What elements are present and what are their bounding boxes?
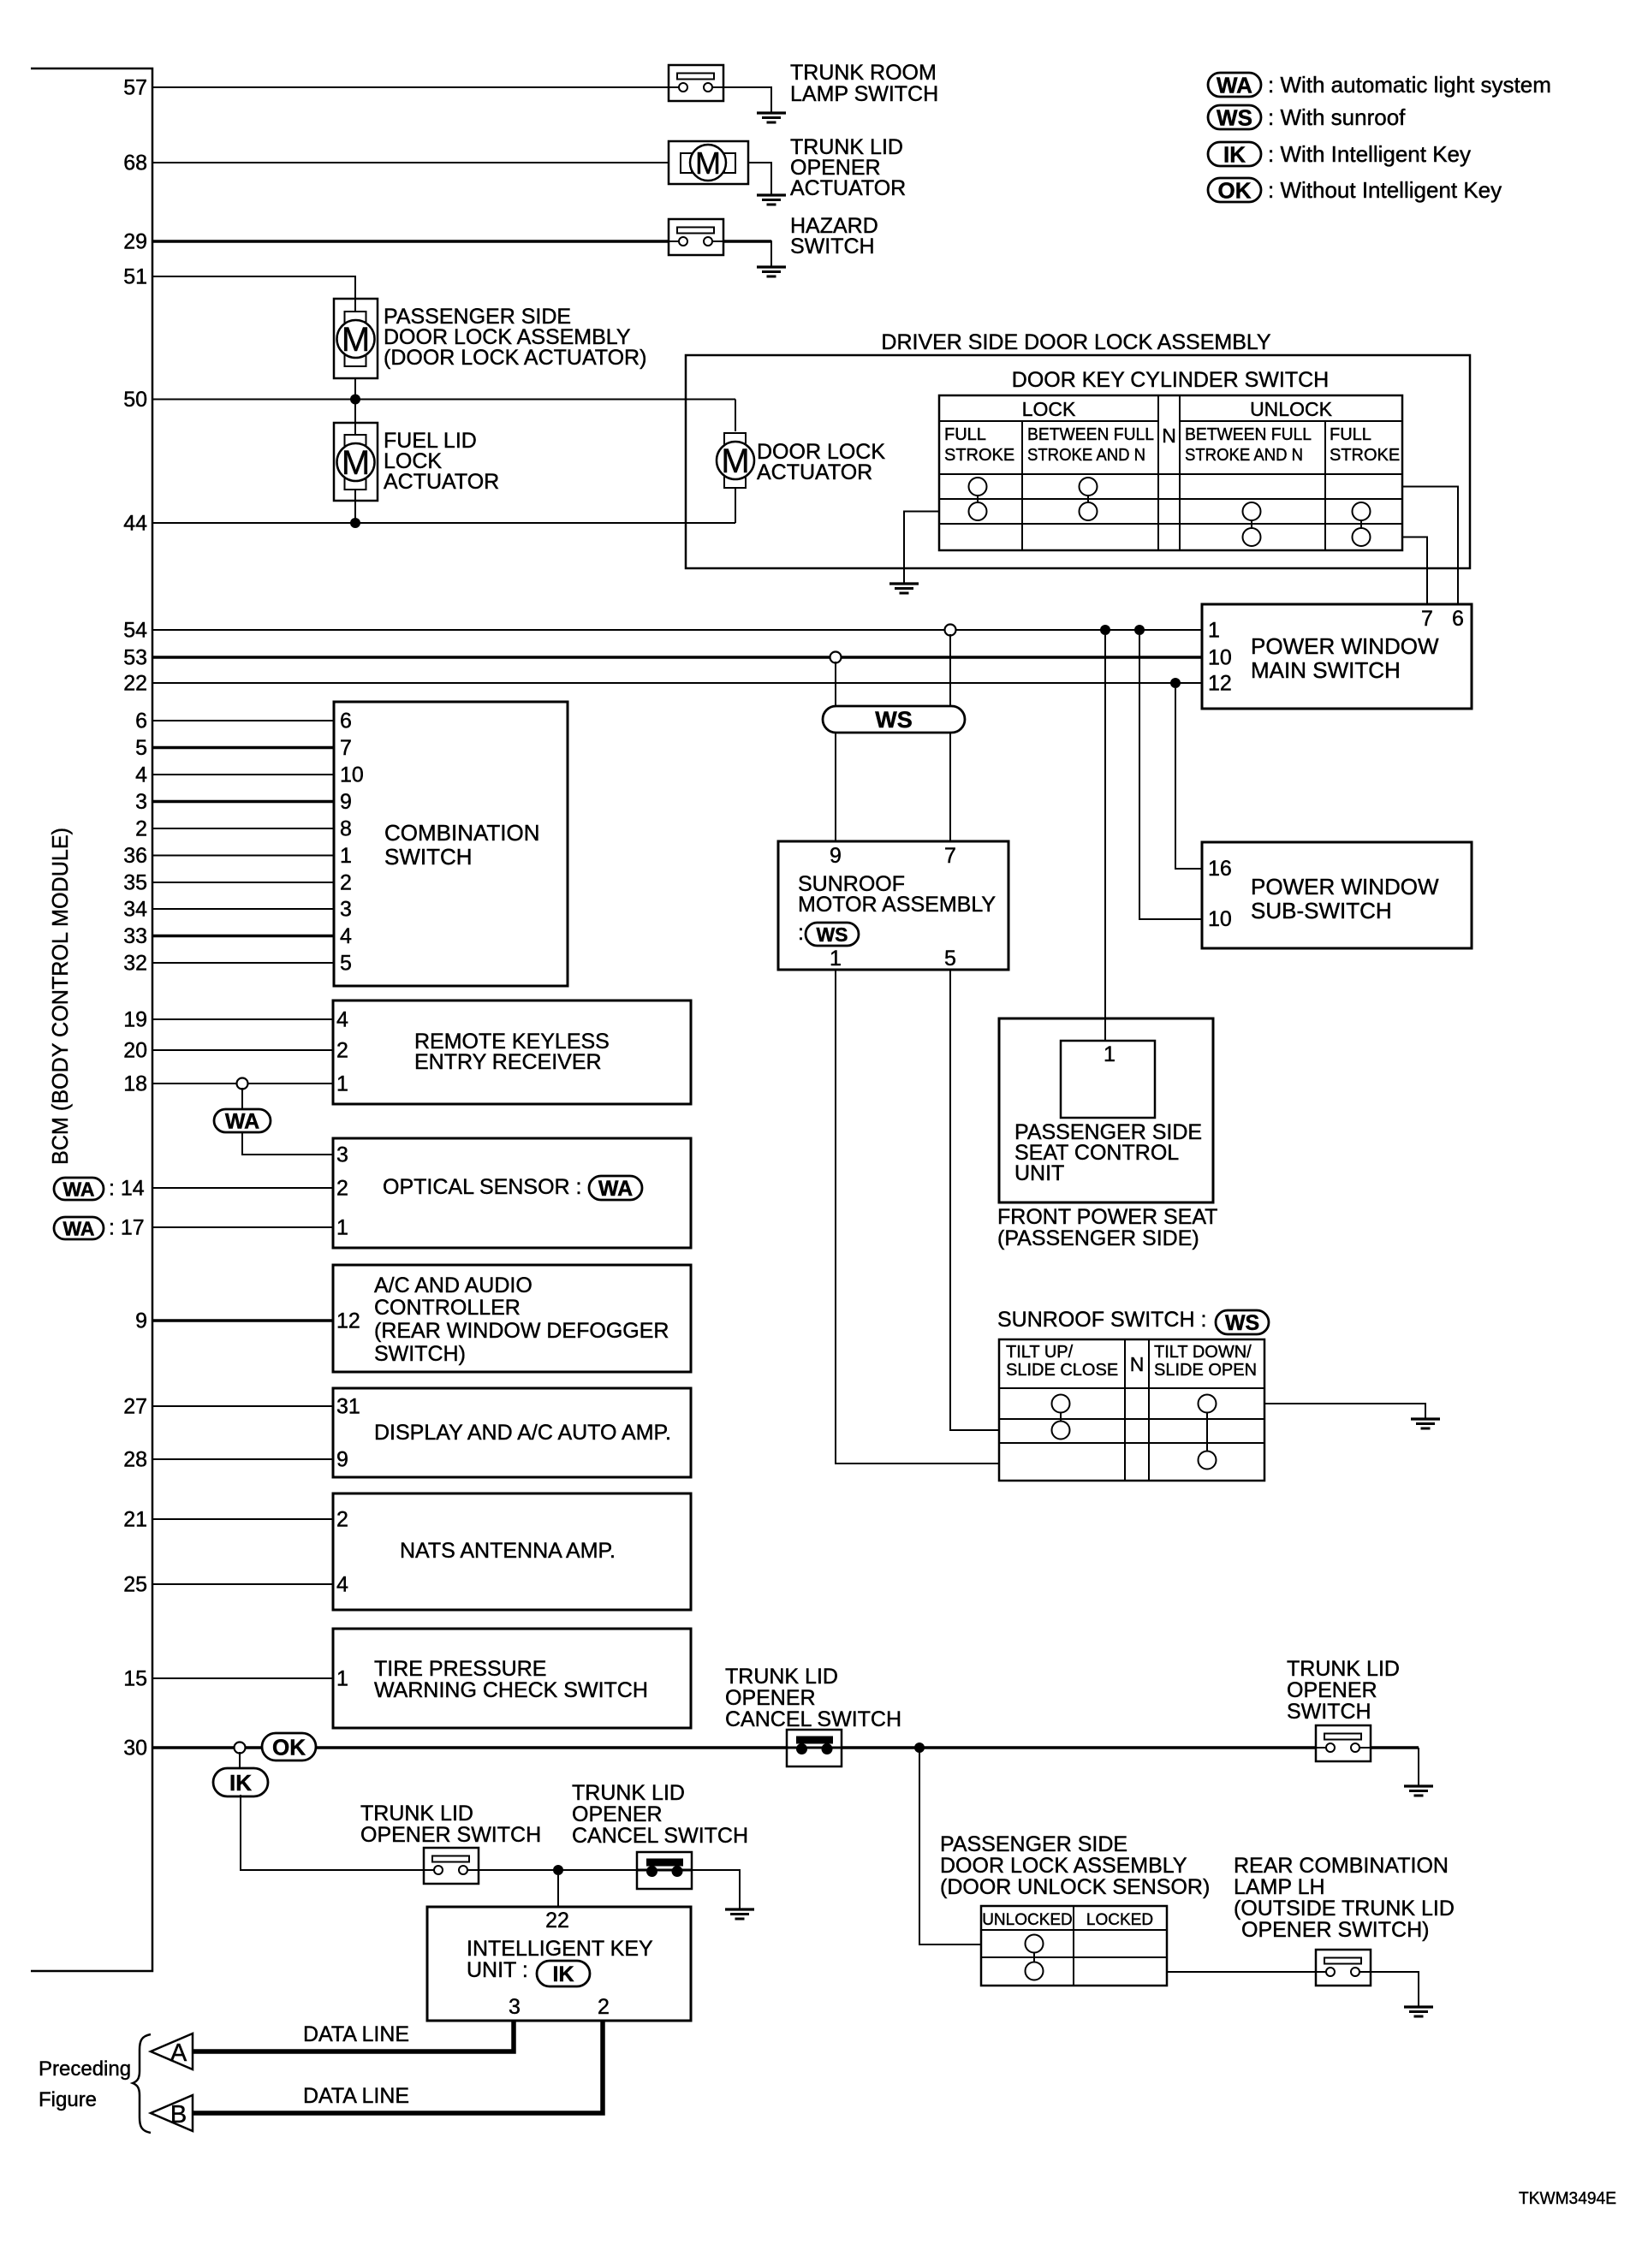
trunk lid opener actuator M1 xyxy=(669,141,748,184)
wire motor M2 to node on pin 50 wire xyxy=(354,378,356,399)
trunk lid opener switch (IK branch) xyxy=(424,1848,479,1884)
wire pin 30 (thick) xyxy=(152,1746,787,1749)
legend OK oval xyxy=(1208,178,1261,202)
svg-text:A/C AND AUDIO: A/C AND AUDIO xyxy=(374,1274,532,1297)
svg-text:STROKE AND N: STROKE AND N xyxy=(1027,446,1145,465)
svg-text:57: 57 xyxy=(123,76,147,100)
svg-text:OK: OK xyxy=(1218,177,1252,203)
wire WA oval to optical sensor pin 3 xyxy=(242,1132,333,1155)
door unlock sensor table xyxy=(981,1906,1167,1986)
svg-text:CONTROLLER: CONTROLLER xyxy=(374,1296,521,1320)
svg-text:SUNROOF SWITCH :: SUNROOF SWITCH : xyxy=(997,1308,1206,1332)
svg-text:MAIN SWITCH: MAIN SWITCH xyxy=(1251,657,1401,683)
wire pin 20 to remote keyless entry receiver pin 2 xyxy=(152,1049,333,1051)
svg-text:CANCEL SWITCH: CANCEL SWITCH xyxy=(572,1824,748,1848)
svg-text:POWER WINDOW: POWER WINDOW xyxy=(1251,633,1439,659)
optical sensor box xyxy=(333,1138,691,1248)
ground for sunroof switch xyxy=(1411,1417,1440,1420)
wire pin 68 to trunk lid opener actuator xyxy=(152,162,669,163)
wire node to power window sub-switch pin 16 xyxy=(1175,688,1202,869)
svg-text:2: 2 xyxy=(336,1508,348,1532)
intelligent key unit box xyxy=(427,1907,691,2021)
option connector on wire 53 xyxy=(830,652,842,663)
wire pin 21 to NATS antenna amp pin 2 xyxy=(152,1518,333,1520)
svg-text:COMBINATION: COMBINATION xyxy=(384,820,540,846)
node junction on wire 30 xyxy=(914,1743,925,1753)
wire pin 5 to combination switch pin 7 (thick) xyxy=(152,746,334,750)
WS option oval on sunroof wires xyxy=(823,706,965,733)
svg-text:ACTUATOR: ACTUATOR xyxy=(757,460,872,484)
cylinder switch contacts unlock between xyxy=(1251,512,1252,537)
svg-text:7: 7 xyxy=(340,736,352,760)
svg-text:M: M xyxy=(342,444,370,482)
trunk lid opener switch (wire 30) xyxy=(1316,1725,1371,1761)
svg-text:6: 6 xyxy=(340,709,352,733)
svg-text:(REAR WINDOW DEFOGGER: (REAR WINDOW DEFOGGER xyxy=(374,1319,669,1343)
svg-text:1: 1 xyxy=(1104,1042,1116,1066)
svg-text:3: 3 xyxy=(340,898,352,922)
display and A/C auto amp box xyxy=(333,1388,691,1477)
svg-text:50: 50 xyxy=(123,388,147,412)
svg-text:OPENER: OPENER xyxy=(725,1686,816,1710)
svg-text:3: 3 xyxy=(135,790,147,814)
svg-text:DRIVER SIDE DOOR LOCK ASSEMBLY: DRIVER SIDE DOOR LOCK ASSEMBLY xyxy=(881,330,1271,354)
wire pin 33 to combination switch pin 4 (thick) xyxy=(152,935,334,938)
svg-text:2: 2 xyxy=(336,1177,348,1201)
svg-text:WA: WA xyxy=(598,1177,633,1201)
wire pin 9 to A/C and audio controller pin 12 (thick) xyxy=(152,1319,333,1322)
svg-text:19: 19 xyxy=(123,1008,147,1032)
svg-text:1: 1 xyxy=(830,947,842,971)
wire pin 27 to display amp pin 31 xyxy=(152,1405,333,1407)
svg-text:22: 22 xyxy=(545,1909,569,1933)
svg-text:18: 18 xyxy=(123,1072,147,1096)
wire pin 4 to combination switch pin 10 xyxy=(152,774,334,775)
wire pin 32 to combination switch pin 5 xyxy=(152,962,334,964)
node junction on wire 50 xyxy=(350,395,360,405)
svg-text:N: N xyxy=(1130,1353,1145,1375)
svg-text:34: 34 xyxy=(123,898,147,922)
svg-text:FULL: FULL xyxy=(1330,425,1371,444)
ground for rear combination lamp xyxy=(1404,2005,1433,2008)
power window sub-switch box xyxy=(1202,842,1472,948)
node on wire 22 to power window sub-switch xyxy=(1170,678,1181,688)
svg-text:5: 5 xyxy=(340,952,352,976)
svg-text:TRUNK LID: TRUNK LID xyxy=(360,1802,473,1826)
svg-text:FRONT POWER SEAT: FRONT POWER SEAT xyxy=(997,1205,1217,1229)
svg-text:PASSENGER SIDE: PASSENGER SIDE xyxy=(940,1832,1127,1856)
svg-text:12: 12 xyxy=(336,1309,360,1333)
svg-text:M: M xyxy=(342,321,370,359)
svg-text:ACTUATOR: ACTUATOR xyxy=(790,176,906,200)
BCM boundary (partial box left) xyxy=(31,68,152,1971)
svg-text:2: 2 xyxy=(336,1039,348,1063)
wire cylinder switch row to ground xyxy=(904,512,939,585)
door lock actuator M4 xyxy=(724,433,746,444)
svg-text:31: 31 xyxy=(336,1395,360,1419)
svg-text:32: 32 xyxy=(123,952,147,976)
svg-text:36: 36 xyxy=(123,844,147,868)
svg-text:(PASSENGER SIDE): (PASSENGER SIDE) xyxy=(997,1226,1199,1250)
sunroof motor WS oval xyxy=(806,923,859,946)
svg-text:6: 6 xyxy=(1452,607,1464,631)
legend WS oval xyxy=(1208,105,1261,129)
cylinder switch contacts lock between xyxy=(1087,487,1089,512)
passenger side seat control unit box xyxy=(999,1018,1213,1202)
svg-text:33: 33 xyxy=(123,924,147,948)
node junction to intelligent key unit xyxy=(553,1865,563,1875)
wire pin 19 to remote keyless entry receiver pin 4 xyxy=(152,1018,333,1020)
svg-text:15: 15 xyxy=(123,1667,147,1691)
data line wire A (thick) xyxy=(192,2021,514,2051)
door key cylinder switch table xyxy=(939,395,1402,550)
wire pin 14 to optical sensor pin 2 xyxy=(152,1187,333,1189)
wire node to sunroof motor pin 9 xyxy=(835,662,836,841)
wire sunroof motor pin 5 to sunroof switch xyxy=(950,970,999,1430)
svg-text:16: 16 xyxy=(1208,857,1232,881)
svg-text:WA: WA xyxy=(62,1217,94,1239)
svg-text:9: 9 xyxy=(135,1309,147,1333)
IK option oval on branch xyxy=(213,1768,268,1796)
svg-text:4: 4 xyxy=(336,1008,348,1032)
wire option connector to IK oval xyxy=(239,1752,241,1769)
sunroof switch contacts tilt down xyxy=(1206,1404,1208,1460)
svg-text:BCM (BODY CONTROL MODULE): BCM (BODY CONTROL MODULE) xyxy=(47,828,73,1165)
sunroof switch table xyxy=(999,1339,1264,1481)
wire pin 3 to combination switch pin 9 (thick) xyxy=(152,800,334,804)
svg-text:: With automatic light system: : With automatic light system xyxy=(1268,72,1551,98)
wire pin 34 to combination switch pin 3 xyxy=(152,908,334,910)
wire pin 57 to trunk room lamp switch xyxy=(152,86,669,88)
svg-text:2: 2 xyxy=(598,1995,610,2019)
svg-text:2: 2 xyxy=(340,871,352,895)
svg-text:IK: IK xyxy=(229,1770,252,1796)
svg-text::: : xyxy=(798,921,804,945)
wire door unlock sensor to rear combination lamp xyxy=(1167,1971,1316,1973)
terminal 17 with WA option xyxy=(54,1217,104,1239)
svg-text:: With Intelligent Key: : With Intelligent Key xyxy=(1268,141,1471,167)
svg-text:TIRE PRESSURE: TIRE PRESSURE xyxy=(374,1657,546,1681)
svg-text:1: 1 xyxy=(336,1072,348,1096)
svg-text:CANCEL SWITCH: CANCEL SWITCH xyxy=(725,1707,901,1731)
svg-text:Preceding: Preceding xyxy=(39,2057,131,2081)
ground for trunk room lamp switch xyxy=(757,111,786,114)
connector arrow B xyxy=(151,2095,193,2131)
tire pressure warning check switch box xyxy=(333,1629,691,1728)
svg-text:(DOOR UNLOCK SENSOR): (DOOR UNLOCK SENSOR) xyxy=(940,1875,1210,1899)
wire pin 53 to power window main switch pin 10 (thick) xyxy=(152,656,1202,659)
svg-text:IK: IK xyxy=(553,1962,574,1986)
svg-text:TILT UP/: TILT UP/ xyxy=(1006,1343,1074,1362)
OK option oval on wire 30 xyxy=(262,1733,316,1760)
svg-text:27: 27 xyxy=(123,1395,147,1419)
svg-text:TRUNK ROOM: TRUNK ROOM xyxy=(790,61,937,85)
svg-text:5: 5 xyxy=(944,947,956,971)
driver side door lock assembly box xyxy=(686,355,1470,568)
svg-text:BETWEEN FULL: BETWEEN FULL xyxy=(1027,425,1154,444)
svg-text:OK: OK xyxy=(272,1734,306,1760)
svg-text:TRUNK LID: TRUNK LID xyxy=(1287,1657,1400,1681)
legend WA oval xyxy=(1208,73,1261,97)
svg-text:IK: IK xyxy=(1223,141,1246,167)
svg-text:WS: WS xyxy=(816,923,848,946)
svg-text:WA: WA xyxy=(62,1178,94,1200)
node on wire 54 to power window sub-switch xyxy=(1134,625,1145,635)
svg-text:SWITCH: SWITCH xyxy=(1287,1700,1371,1724)
wire pin 51 to passenger side door lock actuator xyxy=(152,276,355,299)
trunk lid opener cancel switch (wire 30) xyxy=(787,1730,842,1766)
wire cylinder switch to power window main switch pin 7 xyxy=(1402,537,1427,605)
wire pin 22 to power window main switch pin 12 xyxy=(152,682,1202,684)
terminal 14 with WA option xyxy=(54,1178,104,1200)
door unlock sensor contacts xyxy=(1033,1944,1035,1971)
WA option oval on wire 18 branch xyxy=(214,1109,271,1132)
wire node to power window sub-switch pin 10 xyxy=(1139,635,1202,919)
svg-text:N: N xyxy=(1162,425,1176,447)
wire motor M3 to node on pin 44 wire xyxy=(354,490,356,523)
ground for cancel switch (IK branch) xyxy=(725,1908,754,1910)
svg-text:5: 5 xyxy=(135,736,147,760)
svg-text:12: 12 xyxy=(1208,672,1232,696)
trunk room lamp switch xyxy=(669,65,723,101)
seat control unit inner connector box xyxy=(1061,1041,1155,1118)
svg-text:9: 9 xyxy=(830,844,842,868)
svg-text:LAMP LH: LAMP LH xyxy=(1234,1875,1325,1899)
svg-text:20: 20 xyxy=(123,1039,147,1063)
svg-text:POWER WINDOW: POWER WINDOW xyxy=(1251,874,1439,899)
svg-text:7: 7 xyxy=(1421,607,1433,631)
svg-text:DOOR KEY CYLINDER SWITCH: DOOR KEY CYLINDER SWITCH xyxy=(1012,368,1329,392)
preceding figure brace xyxy=(133,2034,151,2133)
svg-text:UNLOCKED: UNLOCKED xyxy=(982,1911,1073,1929)
svg-text:MOTOR ASSEMBLY: MOTOR ASSEMBLY xyxy=(798,893,996,917)
svg-text:TRUNK LID: TRUNK LID xyxy=(725,1665,838,1689)
cylinder switch contacts unlock full stroke xyxy=(1360,512,1362,537)
wire IK branch to trunk lid opener switch xyxy=(241,1795,424,1870)
ground for trunk lid opener switch xyxy=(1404,1784,1433,1787)
svg-text:WS: WS xyxy=(875,707,913,733)
wire node to sunroof motor pin 7 xyxy=(949,634,951,841)
svg-text:STROKE: STROKE xyxy=(1330,446,1400,465)
svg-text:M: M xyxy=(721,442,749,480)
wire pin 50 to driver side door lock actuator xyxy=(152,399,735,401)
wire rear combination lamp to ground xyxy=(1371,1972,1419,2007)
wire pin 15 to tire pressure warning check switch pin 1 xyxy=(152,1677,333,1679)
svg-text:6: 6 xyxy=(135,709,147,733)
svg-text:OPTICAL SENSOR :: OPTICAL SENSOR : xyxy=(383,1175,581,1199)
wire sunroof switch to ground xyxy=(1264,1404,1425,1419)
ground for trunk lid opener actuator xyxy=(757,193,786,196)
svg-text:22: 22 xyxy=(123,672,147,696)
svg-text:3: 3 xyxy=(336,1143,348,1167)
option connector on wire 18 xyxy=(237,1078,248,1089)
wire pin 36 to combination switch pin 1 xyxy=(152,855,334,857)
wire option connector to WA oval xyxy=(241,1088,243,1109)
wire node to intelligent key unit pin 22 xyxy=(557,1875,559,1907)
svg-text:: 17: : 17 xyxy=(109,1216,145,1240)
svg-text:FULL: FULL xyxy=(944,425,986,444)
wire opener switch to cancel switch (IK branch) xyxy=(479,1869,637,1871)
ground for hazard switch xyxy=(757,265,786,268)
trunk lid opener cancel switch (IK branch) xyxy=(637,1852,692,1889)
A/C and audio controller box xyxy=(333,1265,691,1372)
svg-text:INTELLIGENT KEY: INTELLIGENT KEY xyxy=(467,1937,653,1961)
passenger side door lock assembly M2 xyxy=(334,299,378,378)
wire pin 54 to power window main switch pin 1 xyxy=(152,629,1202,631)
wire pin 29 to hazard switch (thick) xyxy=(152,240,669,243)
svg-text:4: 4 xyxy=(336,1573,348,1597)
svg-text:SUB-SWITCH: SUB-SWITCH xyxy=(1251,898,1392,923)
svg-text:4: 4 xyxy=(340,924,352,948)
svg-text:53: 53 xyxy=(123,646,147,670)
wire node to passenger seat control unit xyxy=(1104,635,1106,1041)
svg-text:SLIDE CLOSE: SLIDE CLOSE xyxy=(1006,1361,1118,1380)
svg-text:LOCK: LOCK xyxy=(1022,398,1076,420)
rear combination lamp outside trunk lid opener switch xyxy=(1316,1950,1371,1986)
svg-text:WS: WS xyxy=(1217,104,1252,130)
svg-text:: 14: : 14 xyxy=(109,1177,145,1201)
svg-text:51: 51 xyxy=(123,265,147,289)
svg-text:ENTRY RECEIVER: ENTRY RECEIVER xyxy=(414,1050,602,1074)
svg-text:WARNING CHECK SWITCH: WARNING CHECK SWITCH xyxy=(374,1678,648,1702)
svg-text:(DOOR LOCK ACTUATOR): (DOOR LOCK ACTUATOR) xyxy=(384,346,646,370)
hazard switch xyxy=(669,219,723,255)
optical sensor WA oval xyxy=(589,1176,642,1200)
svg-text:28: 28 xyxy=(123,1448,147,1472)
sunroof switch WS oval xyxy=(1216,1310,1269,1334)
sunroof switch contacts tilt up xyxy=(1060,1404,1062,1430)
ground for door key cylinder switch xyxy=(889,582,919,585)
svg-text:WA: WA xyxy=(225,1110,259,1134)
wire pin 28 to display amp pin 9 xyxy=(152,1458,333,1460)
wire pin 25 to NATS antenna amp pin 4 xyxy=(152,1583,333,1585)
svg-text:UNIT: UNIT xyxy=(1014,1161,1064,1185)
sunroof motor assembly box xyxy=(778,841,1008,970)
legend IK oval xyxy=(1208,142,1261,166)
wire cylinder switch to power window main switch pin 6 xyxy=(1402,487,1458,605)
svg-text:21: 21 xyxy=(123,1508,147,1532)
svg-text:SWITCH): SWITCH) xyxy=(374,1342,466,1366)
svg-text:DATA LINE: DATA LINE xyxy=(303,2084,409,2108)
intelligent key unit IK oval xyxy=(537,1961,590,1986)
svg-text:DISPLAY AND A/C AUTO AMP.: DISPLAY AND A/C AUTO AMP. xyxy=(374,1421,671,1445)
svg-text:7: 7 xyxy=(944,844,956,868)
wire 50 into door lock actuator M4 xyxy=(735,400,736,432)
svg-text:10: 10 xyxy=(1208,907,1232,931)
wire pin 44 to driver side door lock actuator xyxy=(152,522,735,524)
svg-text:DOOR LOCK ASSEMBLY: DOOR LOCK ASSEMBLY xyxy=(940,1854,1187,1878)
svg-text:(OUTSIDE TRUNK LID: (OUTSIDE TRUNK LID xyxy=(1234,1897,1455,1921)
svg-text:UNLOCK: UNLOCK xyxy=(1250,398,1333,420)
svg-text:9: 9 xyxy=(336,1448,348,1472)
svg-text:ACTUATOR: ACTUATOR xyxy=(384,470,499,494)
svg-text:SLIDE OPEN: SLIDE OPEN xyxy=(1154,1361,1257,1380)
svg-text:TILT DOWN/: TILT DOWN/ xyxy=(1154,1343,1252,1362)
svg-text:LOCKED: LOCKED xyxy=(1086,1911,1153,1929)
node on wire 54 to seat control unit xyxy=(1100,625,1110,635)
wire pin 35 to combination switch pin 2 xyxy=(152,882,334,883)
svg-text:DATA LINE: DATA LINE xyxy=(303,2022,409,2046)
svg-text:TKWM3494E: TKWM3494E xyxy=(1519,2189,1616,2208)
svg-text:25: 25 xyxy=(123,1573,147,1597)
wire sunroof motor pin 1 to sunroof switch xyxy=(836,970,999,1464)
wire pin 18 to remote keyless entry receiver pin 1 xyxy=(152,1083,333,1084)
svg-text:54: 54 xyxy=(123,619,147,643)
svg-text:OPENER SWITCH): OPENER SWITCH) xyxy=(1241,1918,1429,1942)
svg-text:OPENER: OPENER xyxy=(1287,1678,1377,1702)
svg-text:TRUNK LID: TRUNK LID xyxy=(572,1781,685,1805)
wire cancel switch to ground (IK branch) xyxy=(691,1870,740,1909)
wire pin 6 to combination switch pin 6 xyxy=(152,720,334,721)
svg-text:3: 3 xyxy=(509,1995,521,2019)
svg-text:1: 1 xyxy=(340,844,352,868)
svg-text:Figure: Figure xyxy=(39,2088,97,2111)
svg-text:BETWEEN FULL: BETWEEN FULL xyxy=(1185,425,1312,444)
svg-text:68: 68 xyxy=(123,151,147,175)
svg-text:29: 29 xyxy=(123,230,147,254)
wire pin 2 to combination switch pin 8 xyxy=(152,828,334,829)
svg-text:STROKE: STROKE xyxy=(944,446,1014,465)
svg-text:OPENER SWITCH: OPENER SWITCH xyxy=(360,1823,541,1847)
svg-text:LAMP SWITCH: LAMP SWITCH xyxy=(790,82,938,106)
svg-text:WS: WS xyxy=(1225,1311,1259,1335)
svg-text:1: 1 xyxy=(1208,619,1220,643)
svg-text:1: 1 xyxy=(336,1667,348,1691)
svg-text:1: 1 xyxy=(336,1216,348,1240)
svg-text:9: 9 xyxy=(340,790,352,814)
svg-text:SWITCH: SWITCH xyxy=(384,844,473,870)
svg-text:10: 10 xyxy=(1208,646,1232,670)
svg-text:8: 8 xyxy=(340,817,352,841)
option connector on wire 54 xyxy=(945,625,956,636)
wire node to door unlock sensor xyxy=(919,1748,981,1944)
svg-text:2: 2 xyxy=(135,817,147,841)
combination switch box xyxy=(334,702,568,986)
svg-text:4: 4 xyxy=(135,763,147,787)
svg-text:44: 44 xyxy=(123,512,147,536)
svg-text:: With sunroof: : With sunroof xyxy=(1268,104,1406,130)
svg-text:REAR COMBINATION: REAR COMBINATION xyxy=(1234,1854,1449,1878)
NATS antenna amp box xyxy=(333,1493,691,1610)
data line wire B (thick) xyxy=(192,2021,603,2113)
option connector on wire 30 xyxy=(235,1743,246,1754)
svg-text:OPENER: OPENER xyxy=(572,1802,663,1826)
wire door lock actuator M4 to pin 44 wire xyxy=(735,489,736,523)
wire pin 17 to optical sensor pin 1 xyxy=(152,1226,333,1228)
svg-text:: Without Intelligent Key: : Without Intelligent Key xyxy=(1268,177,1502,203)
fuel lid lock actuator M3 xyxy=(334,423,378,501)
svg-text:30: 30 xyxy=(123,1737,147,1760)
svg-text:STROKE AND N: STROKE AND N xyxy=(1185,446,1303,465)
remote keyless entry receiver box xyxy=(333,1000,691,1104)
svg-text:M: M xyxy=(695,145,721,181)
svg-text:10: 10 xyxy=(340,763,364,787)
svg-text:WA: WA xyxy=(1217,72,1252,98)
svg-text:B: B xyxy=(170,2101,187,2128)
svg-text:NATS ANTENNA AMP.: NATS ANTENNA AMP. xyxy=(400,1539,616,1563)
connector arrow A xyxy=(151,2033,193,2069)
svg-text:35: 35 xyxy=(123,871,147,895)
svg-text:UNIT :: UNIT : xyxy=(467,1958,528,1982)
svg-text:SWITCH: SWITCH xyxy=(790,235,875,258)
svg-text:A: A xyxy=(170,2039,187,2067)
node junction on wire 44 xyxy=(350,518,360,528)
power window main switch box xyxy=(1202,604,1472,709)
cylinder switch contacts lock full stroke xyxy=(977,487,979,512)
